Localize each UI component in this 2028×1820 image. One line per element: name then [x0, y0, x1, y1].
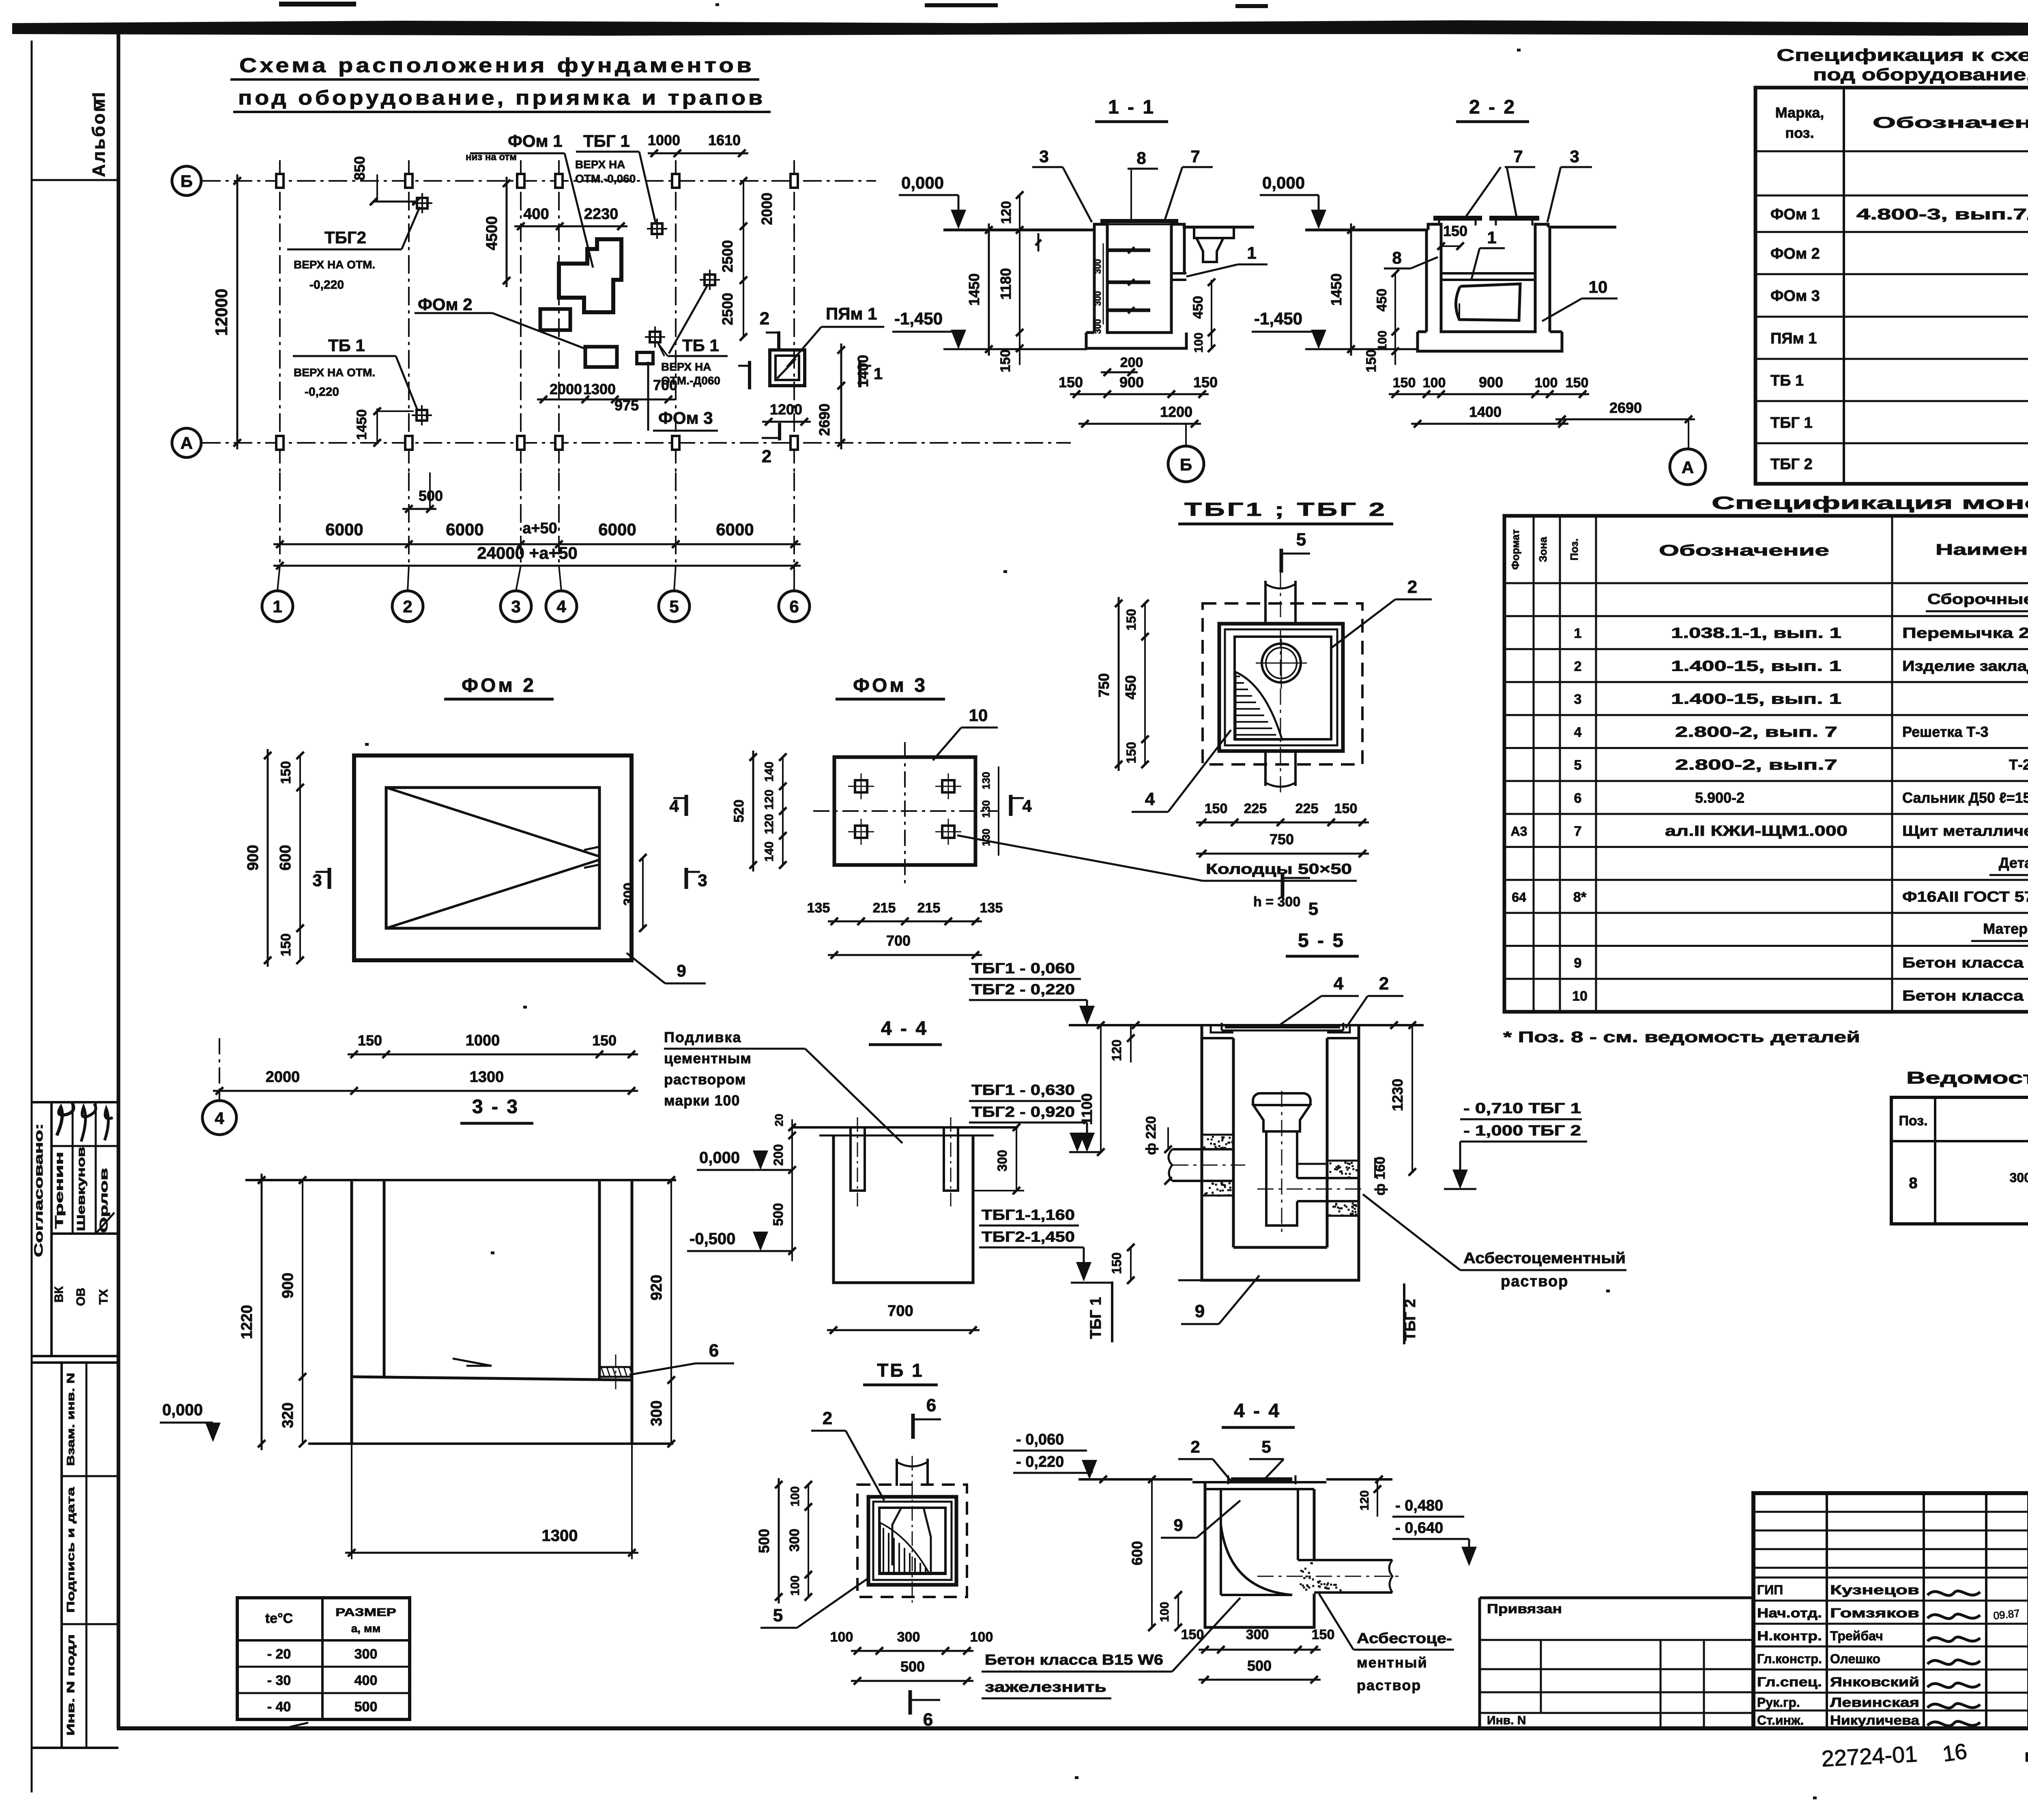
section 1-1 grating plate item7	[1100, 219, 1178, 223]
side stamp signature squiggles	[57, 1102, 73, 1135]
svg-text:Шевкунов: Шевкунов	[75, 1147, 87, 1231]
plan grid bubbles 1-6	[262, 591, 293, 622]
svg-text:Решетка Т-3: Решетка Т-3	[1902, 723, 1988, 740]
svg-text:5 - 5: 5 - 5	[1298, 930, 1345, 951]
svg-text:* Поз. 8 - см. ведомость детал: * Поз. 8 - см. ведомость деталей	[1503, 1029, 1860, 1046]
svg-text:раствором: раствором	[664, 1071, 746, 1088]
section 2-2 dim 1450	[1350, 223, 1352, 356]
svg-text:500: 500	[354, 1699, 378, 1715]
svg-text:100: 100	[970, 1629, 993, 1645]
section 1-1 bottom slab	[1086, 333, 1186, 348]
plan axis A circle	[172, 428, 201, 457]
svg-text:ВК: ВК	[52, 1286, 66, 1303]
svg-text:5: 5	[1261, 1437, 1271, 1456]
svg-text:2: 2	[1379, 974, 1389, 994]
svg-text:Олешко: Олешко	[1830, 1652, 1880, 1666]
TB1 hatched sector	[880, 1523, 929, 1573]
plan dim 4500 vertical	[506, 177, 508, 287]
svg-text:320: 320	[279, 1402, 296, 1428]
svg-text:марки 100: марки 100	[664, 1092, 740, 1109]
svg-text:- 1,000 ТБГ 2: - 1,000 ТБГ 2	[1463, 1122, 1581, 1139]
TBG plan dashed excavation square	[1203, 603, 1362, 764]
svg-text:ВЕРХ НА: ВЕРХ НА	[575, 158, 625, 171]
svg-text:300: 300	[1093, 259, 1103, 274]
svg-text:100: 100	[1423, 375, 1446, 391]
TB1 top pipe	[896, 1459, 898, 1486]
svg-text:100: 100	[1158, 1602, 1171, 1622]
svg-text:12000: 12000	[212, 289, 231, 336]
svg-text:150: 150	[1393, 375, 1416, 391]
svg-text:150: 150	[358, 1032, 382, 1049]
section 5-5 dim 150 left bottom	[1130, 1247, 1132, 1280]
section 1-1 ground line	[943, 229, 1087, 232]
TBG plan left dims 150 450 150	[1144, 603, 1146, 764]
svg-text:Орлов: Орлов	[97, 1168, 110, 1233]
section 4-4 upper anchor legs	[851, 1127, 865, 1191]
svg-text:500: 500	[756, 1529, 772, 1553]
svg-text:1400: 1400	[855, 355, 871, 387]
svg-text:1450: 1450	[966, 273, 982, 306]
svg-text:2690: 2690	[816, 403, 833, 436]
svg-text:3: 3	[511, 597, 520, 616]
svg-text:6000: 6000	[716, 520, 754, 539]
svg-text:3 - 3: 3 - 3	[472, 1096, 519, 1118]
svg-text:Схема расположения фундаментов: Схема расположения фундаментов	[239, 54, 754, 77]
svg-text:130: 130	[980, 800, 992, 818]
svg-text:Тренин: Тренин	[53, 1152, 65, 1229]
svg-text:700: 700	[886, 932, 911, 949]
plan right vertical dims 2000 2500 2500	[743, 181, 744, 337]
section 3-3 slope arrow	[453, 1359, 492, 1366]
TBG plan bottom pipe	[1264, 751, 1267, 786]
svg-text:Асбестоцементный: Асбестоцементный	[1463, 1250, 1626, 1267]
svg-text:6000: 6000	[325, 520, 363, 539]
section 3-3 dims 920 300	[670, 1180, 672, 1444]
svg-text:ВЕРХ НА ОТМ.: ВЕРХ НА ОТМ.	[294, 258, 375, 271]
section 1-1 small tick mark	[1038, 233, 1040, 251]
svg-text:3: 3	[312, 871, 322, 890]
svg-text:ТБ 1: ТБ 1	[328, 336, 365, 355]
svg-text:200: 200	[1120, 355, 1143, 370]
svg-text:64: 64	[1512, 890, 1526, 904]
svg-text:130: 130	[980, 772, 992, 789]
vedomost grid	[1891, 1097, 2028, 1224]
svg-text:0,000: 0,000	[1262, 173, 1305, 192]
svg-text:700: 700	[653, 377, 677, 393]
svg-text:120: 120	[999, 201, 1014, 224]
TB1 center dash line	[912, 1456, 913, 1606]
section 1-1 pit walls	[1087, 224, 1184, 333]
svg-text:1300: 1300	[470, 1069, 504, 1086]
svg-text:520: 520	[731, 800, 747, 823]
svg-text:1: 1	[1487, 228, 1496, 247]
svg-text:ТБГ 2: ТБГ 2	[1770, 456, 1813, 473]
svg-text:150: 150	[998, 350, 1013, 373]
svg-text:150: 150	[278, 761, 294, 784]
svg-text:-1,450: -1,450	[1254, 309, 1302, 328]
section 4-4 upper box	[834, 1135, 973, 1283]
svg-text:4: 4	[215, 1109, 224, 1128]
svg-text:600: 600	[277, 845, 294, 870]
svg-text:ТБГ 1: ТБГ 1	[1770, 414, 1813, 431]
svg-text:135: 135	[980, 900, 1003, 916]
section 3-3 dims 900 320	[302, 1180, 303, 1444]
svg-text:2: 2	[403, 597, 412, 616]
svg-text:120: 120	[763, 790, 776, 810]
svg-text:1450: 1450	[1328, 273, 1345, 306]
svg-text:низ на отм: низ на отм	[466, 152, 517, 163]
svg-text:Бетон класса В 15, W6: Бетон класса В 15, W6	[1902, 987, 2028, 1004]
FOm3 section marks 4	[685, 795, 688, 816]
svg-text:Обозначение: Обозначение	[1873, 114, 2028, 131]
section 4-4 lower outlet pipe	[1298, 1559, 1392, 1561]
svg-text:Марка,: Марка,	[1775, 104, 1824, 121]
side stamp: Soglasovano table	[32, 1101, 118, 1103]
plan pit PYam1 square	[770, 350, 805, 386]
FOm2 dim 900	[267, 749, 269, 967]
svg-text:1.400-15, вып. 1: 1.400-15, вып. 1	[1671, 691, 1841, 707]
svg-text:ФОм 2: ФОм 2	[1770, 245, 1820, 262]
svg-text:150: 150	[278, 934, 294, 957]
title block thin top rows	[1753, 1511, 2028, 1513]
svg-text:Подливка: Подливка	[664, 1029, 741, 1045]
scan registration marks top	[279, 2, 356, 6]
svg-text:Сальник Д50 ℓ=150: Сальник Д50 ℓ=150	[1902, 790, 2028, 806]
svg-text:500: 500	[771, 1203, 786, 1226]
TBG plan inner square	[1235, 637, 1331, 739]
svg-text:1 - 1: 1 - 1	[1108, 97, 1155, 118]
svg-text:Рук.гр.: Рук.гр.	[1757, 1695, 1800, 1710]
svg-text:ТБГ1 - 0,060: ТБГ1 - 0,060	[971, 960, 1075, 977]
svg-text:Привязан: Привязан	[1487, 1601, 1562, 1616]
svg-text:300: 300	[787, 1529, 802, 1552]
svg-text:300: 300	[897, 1629, 920, 1645]
svg-text:ТБГ2: ТБГ2	[324, 228, 366, 247]
svg-text:5: 5	[1574, 758, 1582, 773]
svg-text:Нач.отд.: Нач.отд.	[1757, 1606, 1822, 1620]
svg-text:4: 4	[1574, 725, 1582, 740]
privyazan block	[1480, 1597, 1753, 1599]
section 2-2 bath item10 profile	[1456, 284, 1520, 320]
svg-text:Зона: Зона	[1537, 537, 1549, 562]
svg-text:1: 1	[273, 597, 282, 616]
section 2-2 dims 450 100 150	[1394, 273, 1396, 365]
title block name rows	[1753, 1577, 2028, 1579]
svg-text:5: 5	[669, 597, 679, 616]
svg-text:5: 5	[773, 1605, 783, 1625]
section 5-5 outlet pipe right	[1297, 1178, 1359, 1201]
svg-text:- 0,710 ТБГ 1: - 0,710 ТБГ 1	[1463, 1100, 1581, 1116]
svg-text:2: 2	[760, 309, 769, 328]
section 4-4 lower dim 120 right	[1377, 1479, 1378, 1517]
plan column marks on axis A	[276, 436, 284, 450]
svg-text:под оборудование, приямка и тр: под оборудование, приямка и трапов	[1813, 65, 2028, 84]
FOm2 section mark 3 right	[685, 868, 688, 889]
section 3-3 embed item6	[599, 1367, 632, 1377]
svg-text:1220: 1220	[238, 1305, 256, 1339]
TBG plan hatched sector	[1235, 672, 1282, 740]
svg-text:3: 3	[698, 871, 707, 890]
svg-text:Согласовано:: Согласовано:	[32, 1123, 45, 1257]
svg-text:- 40: - 40	[267, 1699, 291, 1715]
svg-text:Взам. инв. N: Взам. инв. N	[64, 1373, 77, 1466]
section 2-2 lintel item1	[1441, 272, 1535, 275]
section 4-4 lower dims 600 100	[1151, 1479, 1153, 1627]
svg-text:2000: 2000	[266, 1069, 300, 1086]
svg-text:150: 150	[1443, 223, 1467, 239]
svg-text:1000: 1000	[648, 132, 680, 148]
svg-text:раствор: раствор	[1357, 1677, 1421, 1693]
svg-text:1.038.1-1, вып. 1: 1.038.1-1, вып. 1	[1671, 625, 1841, 641]
section 5-5 ground top line	[1069, 1024, 1424, 1026]
svg-text:ПЯм 1: ПЯм 1	[1770, 330, 1817, 347]
svg-text:150: 150	[1124, 609, 1139, 630]
section 4-4 lower asbestos dots	[1312, 1578, 1314, 1580]
TB1 funnel lines	[892, 1508, 931, 1571]
spec table 2 grid	[1504, 516, 2028, 1012]
svg-text:0,000: 0,000	[901, 173, 944, 192]
TBG plan centerline vertical	[1280, 572, 1281, 795]
svg-text:Детали: Детали	[1999, 854, 2028, 871]
section 3-3 floor line	[353, 1377, 633, 1380]
svg-text:ФОм 1: ФОм 1	[1770, 206, 1820, 223]
svg-text:ТБГ 1: ТБГ 1	[583, 131, 630, 150]
svg-text:Копир. Лихачева: Копир. Лихачева	[2025, 1750, 2028, 1764]
frame bottom line	[117, 1726, 2028, 1730]
svg-text:1450: 1450	[354, 409, 370, 440]
svg-text:Ст.инж.: Ст.инж.	[1757, 1713, 1804, 1728]
svg-text:Сборочные единицы: Сборочные единицы	[1927, 591, 2028, 607]
svg-text:120: 120	[763, 814, 776, 834]
svg-text:ал.II КЖИ-ЩМ1.000: ал.II КЖИ-ЩМ1.000	[1665, 822, 1848, 839]
section 4-4 lower ground line	[1078, 1478, 1192, 1481]
svg-text:100: 100	[788, 1575, 802, 1596]
svg-text:ПЯм 1: ПЯм 1	[826, 304, 877, 323]
section 4-4 lower top flange	[1192, 1481, 1326, 1483]
svg-text:ОТМ.-0,060: ОТМ.-0,060	[575, 172, 636, 185]
section 1-1 adjacent trap funnel	[1184, 227, 1254, 238]
svg-text:Гл.констр.: Гл.констр.	[1757, 1652, 1822, 1666]
svg-text:400: 400	[354, 1673, 378, 1688]
FOm2 dims 150 600 150	[299, 755, 301, 960]
svg-text:Материалы: Материалы	[1983, 921, 2028, 937]
svg-text:Спецификация монолитных элем: Спецификация монолитных элементов	[1712, 493, 2028, 513]
TBG plan dim 750 left	[1118, 597, 1120, 771]
svg-text:225: 225	[1244, 801, 1267, 816]
svg-text:ГИП: ГИП	[1757, 1583, 1783, 1597]
svg-text:300: 300	[995, 1150, 1010, 1171]
svg-text:150: 150	[1566, 375, 1589, 391]
svg-text:120: 120	[1109, 1039, 1124, 1061]
svg-text:А3: А3	[1511, 824, 1527, 839]
svg-text:ВЕРХ НА ОТМ.: ВЕРХ НА ОТМ.	[294, 366, 375, 379]
svg-text:8*: 8*	[1573, 889, 1587, 905]
FOm2 inner rect	[386, 788, 599, 928]
TB1 dashed square	[857, 1485, 967, 1597]
svg-text:поз.: поз.	[1785, 124, 1814, 141]
svg-text:500: 500	[900, 1658, 925, 1675]
svg-text:150: 150	[592, 1032, 617, 1049]
svg-text:ТБГ 1: ТБГ 1	[1087, 1297, 1104, 1339]
svg-text:10: 10	[1589, 277, 1608, 296]
svg-text:100: 100	[830, 1629, 853, 1645]
svg-text:10: 10	[1572, 988, 1588, 1004]
svg-text:раствор: раствор	[1501, 1273, 1568, 1290]
svg-text:5: 5	[1308, 899, 1318, 919]
svg-text:а, мм: а, мм	[351, 1622, 381, 1635]
section 1-1 dims 120 1180 150	[1019, 195, 1020, 365]
svg-text:9: 9	[1173, 1515, 1183, 1535]
svg-text:ТБГ2-1,450: ТБГ2-1,450	[982, 1228, 1075, 1245]
plan trap TBG1 mark	[652, 223, 662, 234]
svg-text:- 30: - 30	[267, 1673, 291, 1688]
svg-text:300: 300	[648, 1400, 665, 1426]
svg-text:под оборудование, приямка и тр: под оборудование, приямка и трапов	[238, 86, 765, 109]
section 1-1 dim 1450	[988, 223, 990, 356]
svg-text:1230: 1230	[1389, 1079, 1406, 1111]
svg-text:Трейбач: Трейбач	[1830, 1629, 1883, 1643]
svg-text:900: 900	[1479, 374, 1503, 391]
svg-text:16: 16	[1941, 1739, 1969, 1766]
svg-text:ТБГ1 - 0,630: ТБГ1 - 0,630	[971, 1082, 1075, 1098]
svg-text:а+50: а+50	[522, 520, 557, 537]
svg-text:-0,220: -0,220	[305, 385, 339, 399]
svg-text:6: 6	[1574, 791, 1582, 806]
svg-text:4: 4	[556, 597, 566, 616]
page left edge line	[31, 41, 33, 1792]
plan column marks on axis B	[276, 174, 284, 188]
svg-text:2000: 2000	[758, 193, 775, 225]
title block outer	[1753, 1493, 2028, 1728]
svg-text:- 0,480: - 0,480	[1395, 1497, 1443, 1514]
svg-text:ф 220: ф 220	[1143, 1116, 1159, 1155]
TB1 dims left 500 100 300 100	[778, 1478, 780, 1603]
section 5-5 level arrow mid left	[1069, 1151, 1101, 1153]
svg-text:6: 6	[709, 1341, 719, 1361]
section 1-1 rebar dowels	[1108, 249, 1150, 252]
plan grid line extensions to dim lines	[279, 472, 281, 566]
section 2-2 pit walls	[1428, 224, 1548, 332]
section 1-1 dims 450 100 right	[1211, 280, 1212, 349]
svg-text:700: 700	[887, 1303, 913, 1320]
svg-text:0,000: 0,000	[162, 1401, 203, 1419]
svg-text:Поз.: Поз.	[1568, 539, 1580, 560]
svg-text:tе°C: tе°C	[265, 1611, 293, 1626]
svg-text:Инв. N: Инв. N	[1487, 1714, 1526, 1727]
svg-text:3: 3	[1574, 692, 1582, 707]
section 2-2 bottom slab	[1418, 332, 1562, 351]
plan foundation FOm1 pedestal rect	[540, 309, 570, 330]
section 4-4 lower pit walls	[1205, 1482, 1314, 1627]
svg-text:150: 150	[1193, 374, 1218, 391]
svg-text:Кузнецов: Кузнецов	[1830, 1583, 1919, 1597]
svg-text:Обозначение: Обозначение	[1659, 542, 1829, 559]
svg-text:ТБГ1-1,160: ТБГ1-1,160	[982, 1206, 1075, 1223]
svg-text:ТБГ1 ; ТБГ 2: ТБГ1 ; ТБГ 2	[1184, 499, 1387, 520]
svg-text:ТБГ2 - 0,220: ТБГ2 - 0,220	[971, 981, 1075, 998]
svg-text:6: 6	[789, 597, 799, 616]
section 4-4 upper dim 300 right	[1016, 1127, 1017, 1191]
svg-text:6000: 6000	[446, 520, 483, 539]
svg-text:цементным: цементным	[664, 1050, 752, 1067]
FOm3 center dashdot lines	[813, 810, 998, 812]
plan dim row 24000	[273, 565, 801, 567]
svg-text:4: 4	[1145, 789, 1155, 809]
svg-text:Левинская: Левинская	[1830, 1695, 1919, 1710]
section 2-2 grid bubble A	[1688, 419, 1689, 449]
section 4-4 upper floor lines	[792, 1126, 1018, 1129]
title block left columns	[1826, 1493, 1828, 1728]
section 5-5 trap bell and pipe	[1253, 1105, 1310, 1131]
svg-text:ФОм 3: ФОм 3	[853, 675, 928, 696]
svg-text:4 - 4: 4 - 4	[881, 1018, 928, 1039]
svg-text:2: 2	[1190, 1437, 1200, 1456]
svg-text:h = 300: h = 300	[1253, 894, 1300, 910]
svg-text:6000: 6000	[598, 520, 636, 539]
TB1 section mark 6 bottom	[909, 1690, 912, 1715]
svg-text:2.800-2, вып.7: 2.800-2, вып.7	[1675, 756, 1837, 773]
svg-text:300: 300	[1093, 319, 1103, 334]
svg-text:150: 150	[1312, 1627, 1335, 1642]
svg-text:135: 135	[807, 900, 830, 916]
svg-text:2230: 2230	[584, 206, 619, 223]
plan grid lines 1-6 dash-dot	[279, 160, 281, 472]
section 1-1 grid bubble B	[1185, 424, 1187, 446]
section 5-5 inlet pipe left	[1172, 1149, 1233, 1181]
svg-text:ТБ 1: ТБ 1	[682, 336, 719, 355]
svg-text:5.900-2: 5.900-2	[1695, 790, 1744, 806]
FOm3 left dims 140 120 120 140 and 520	[782, 757, 784, 865]
svg-text:2500: 2500	[719, 293, 736, 325]
svg-text:1400: 1400	[1469, 403, 1502, 420]
section 5-5 pit outline	[1202, 1025, 1359, 1247]
plan trap TB1 mark left bottom	[417, 410, 427, 421]
svg-text:2500: 2500	[719, 240, 736, 273]
svg-text:900: 900	[245, 845, 262, 870]
plan section mark T1 right	[858, 361, 861, 387]
svg-text:450: 450	[1122, 675, 1139, 700]
svg-text:7: 7	[1190, 147, 1200, 166]
svg-text:Б: Б	[180, 172, 193, 191]
svg-text:225: 225	[1295, 801, 1319, 816]
scan edge band top	[12, 23, 2028, 34]
section 4-4 upper dims 20 200 500	[791, 1119, 793, 1261]
section 5-5 bottom slab	[1202, 1247, 1359, 1280]
svg-text:920: 920	[648, 1275, 665, 1300]
svg-text:1200: 1200	[770, 401, 802, 418]
svg-text:1300: 1300	[542, 1527, 578, 1545]
svg-text:1000: 1000	[466, 1032, 500, 1049]
svg-text:3: 3	[1039, 147, 1048, 166]
svg-text:-0,500: -0,500	[690, 1230, 735, 1248]
FOm3 plate rect	[834, 757, 975, 865]
svg-text:ФОм 2: ФОм 2	[462, 675, 536, 696]
svg-text:Гомзяков: Гомзяков	[1830, 1606, 1919, 1620]
plan dim row 6000 spacing	[273, 543, 801, 545]
svg-text:РАЗМЕР: РАЗМЕР	[335, 1606, 396, 1618]
FOm2 section mark 3 left	[328, 868, 331, 889]
plan axis B dash-dot line	[202, 180, 876, 182]
svg-text:140: 140	[763, 841, 776, 862]
svg-text:Инв. N подл: Инв. N подл	[64, 1634, 77, 1736]
TBG plan hub circle	[1262, 644, 1301, 682]
plan axis B circle	[172, 166, 201, 195]
svg-text:850: 850	[351, 156, 368, 180]
svg-text:8: 8	[1392, 248, 1401, 267]
svg-text:ментный: ментный	[1357, 1654, 1428, 1671]
section 3-3 dim 1220	[261, 1174, 263, 1450]
section 1-1 dims 300x3	[1103, 243, 1104, 324]
